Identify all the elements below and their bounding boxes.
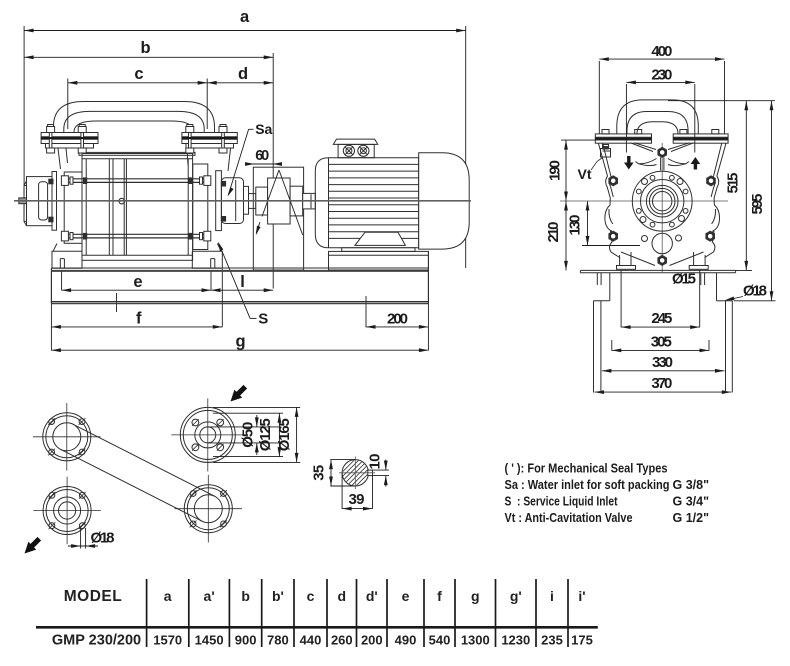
svg-text:d: d xyxy=(238,65,248,83)
bottom vee to drain xyxy=(621,252,704,266)
motor end bell xyxy=(419,153,470,249)
dimension 60 xyxy=(247,163,281,165)
svg-text:780: 780 xyxy=(267,633,289,648)
svg-text:595: 595 xyxy=(749,194,766,215)
svg-text:S : Service Liquid Inlet: S : Service Liquid Inlet xyxy=(505,495,619,509)
dimension 35 xyxy=(330,460,332,486)
svg-text:260: 260 xyxy=(331,633,353,648)
motor base block xyxy=(329,251,429,270)
svg-text:400: 400 xyxy=(651,43,672,60)
svg-text:GMP 230/200: GMP 230/200 xyxy=(52,633,141,649)
svg-text:Ø18: Ø18 xyxy=(91,530,115,547)
svg-text:a: a xyxy=(240,8,250,26)
motor shaft end xyxy=(303,193,316,209)
svg-text:G 3/8": G 3/8" xyxy=(673,478,710,492)
svg-text:MODEL: MODEL xyxy=(64,588,122,605)
svg-text:200: 200 xyxy=(387,310,408,327)
shaft to coupling xyxy=(249,194,256,209)
tie rod lower xyxy=(64,234,210,238)
dimension 39 xyxy=(342,508,372,510)
svg-text:l: l xyxy=(240,273,245,291)
right bearing flange plate xyxy=(216,171,222,231)
lifting handle side view xyxy=(53,102,214,133)
dimension f and 200 xyxy=(51,326,222,328)
left port flange plates xyxy=(41,133,98,144)
flange bolts front xyxy=(602,130,609,134)
shaft key xyxy=(368,470,373,476)
guard brace xyxy=(279,170,303,235)
flange top-left xyxy=(43,413,91,461)
shaft hatching xyxy=(337,427,373,518)
dia50 dimension xyxy=(208,426,281,428)
drain port xyxy=(652,233,672,253)
casing center plug xyxy=(119,198,125,204)
dimension 370 xyxy=(595,391,732,393)
dimension 130 xyxy=(587,201,589,246)
svg-text:d': d' xyxy=(366,588,378,604)
svg-text:Vt: Vt xyxy=(578,166,592,182)
svg-text:235: 235 xyxy=(541,633,563,648)
svg-text:370: 370 xyxy=(651,375,672,392)
shaft axis centerline xyxy=(14,200,471,202)
dimension b xyxy=(24,56,273,58)
face bolt holes xyxy=(670,175,675,180)
svg-text:S: S xyxy=(258,311,268,328)
right port flange plates xyxy=(182,133,237,144)
front flange plate right xyxy=(673,134,728,143)
gasket bands front flanges xyxy=(595,138,651,140)
svg-text:515: 515 xyxy=(725,173,742,194)
svg-text:b': b' xyxy=(272,588,284,604)
body profile right xyxy=(705,143,726,257)
shaft cross-section circle xyxy=(342,460,368,486)
flow arrow down xyxy=(624,156,634,170)
svg-text:a: a xyxy=(164,588,172,604)
flange bottom-left detail xyxy=(43,487,91,535)
dimension 190 and 210 xyxy=(565,140,567,270)
dia125 dimension xyxy=(278,413,280,456)
left bearing housing xyxy=(27,177,53,226)
svg-text:60: 60 xyxy=(255,148,269,164)
casing small bosses xyxy=(642,179,648,185)
arrowheads side dims xyxy=(24,29,33,33)
svg-text:Ø165: Ø165 xyxy=(276,418,293,451)
dimension 230 xyxy=(626,81,694,83)
front centerlines xyxy=(560,200,728,202)
gasket bands on port flanges xyxy=(41,137,98,139)
svg-text:f: f xyxy=(437,588,442,604)
front feet xyxy=(619,255,621,266)
svg-text:b: b xyxy=(241,588,250,604)
dimension g xyxy=(51,349,428,351)
flow arrow up xyxy=(691,157,701,170)
svg-text:200: 200 xyxy=(361,633,383,648)
svg-text:g': g' xyxy=(510,588,522,604)
table column separators xyxy=(146,579,148,647)
dimension 595 xyxy=(771,101,773,301)
pump cylinder casing xyxy=(82,154,193,261)
svg-text:35: 35 xyxy=(311,465,328,481)
dimension e and l xyxy=(62,289,274,291)
bearing face circles xyxy=(632,171,692,231)
svg-text:330: 330 xyxy=(652,354,673,371)
flange top-right detail xyxy=(180,407,235,462)
svg-text:190: 190 xyxy=(547,160,564,181)
dia18 dimension pipe xyxy=(80,528,82,549)
svg-text:540: 540 xyxy=(429,633,451,648)
coupling hubs xyxy=(256,187,268,215)
svg-text:900: 900 xyxy=(235,633,257,648)
front flange plate left xyxy=(595,134,651,143)
bold arrow to flange detail xyxy=(231,385,248,402)
flange bottom-right xyxy=(184,485,232,533)
dimension 245 xyxy=(621,326,700,328)
leader S xyxy=(219,244,250,319)
body profile left xyxy=(598,143,619,257)
leader dia18 xyxy=(726,297,743,301)
tie rod wall nuts xyxy=(83,177,193,239)
front base pedestal xyxy=(580,269,735,271)
dimension 515 xyxy=(745,101,747,271)
svg-text:a': a' xyxy=(204,588,215,604)
svg-text:g: g xyxy=(471,588,480,604)
svg-text:130: 130 xyxy=(567,215,584,236)
terminal box bolts xyxy=(343,145,354,156)
casing top plate xyxy=(79,152,195,155)
svg-text:f: f xyxy=(136,309,142,327)
baseplate hole centerline ticks xyxy=(116,293,118,312)
svg-text:440: 440 xyxy=(300,633,322,648)
svg-text:490: 490 xyxy=(395,633,417,648)
dimension c and d xyxy=(68,82,273,84)
svg-text:G 1/2": G 1/2" xyxy=(673,511,710,525)
motor cooling fins xyxy=(329,163,419,165)
motor foot pad xyxy=(355,232,406,245)
svg-text:e: e xyxy=(133,273,142,291)
left bearing flange plate xyxy=(52,172,57,231)
bold arrow bottom left xyxy=(25,537,42,554)
svg-text:i': i' xyxy=(578,588,585,604)
svg-text:( ' ): For Mechanical Seal Typ: ( ' ): For Mechanical Seal Types xyxy=(505,462,668,476)
right seal housing xyxy=(244,186,249,214)
right bearing housing xyxy=(221,178,243,224)
svg-text:Ø50: Ø50 xyxy=(240,422,257,448)
svg-text:Ø125: Ø125 xyxy=(257,418,274,451)
svg-text:Sa: Sa xyxy=(255,121,272,137)
anti-cavitation valve Vt xyxy=(601,149,611,158)
port flange bolts xyxy=(47,125,227,154)
right end cover xyxy=(193,164,208,250)
svg-text:230: 230 xyxy=(651,67,672,84)
svg-text:b: b xyxy=(140,39,150,57)
baseplate side view xyxy=(51,267,428,269)
dimension 10 xyxy=(385,460,387,471)
hex bolts on casing xyxy=(608,147,715,266)
svg-text:39: 39 xyxy=(349,491,365,508)
pipe between flanges xyxy=(61,449,203,521)
left shaft stub xyxy=(19,198,27,204)
svg-text:245: 245 xyxy=(651,310,672,327)
motor fin body xyxy=(315,158,418,248)
pump foot right xyxy=(192,244,222,269)
front handle xyxy=(617,100,699,134)
svg-text:1450: 1450 xyxy=(195,633,224,648)
pump foot left xyxy=(52,244,82,269)
shaft crosshairs xyxy=(339,472,375,474)
bearing housing bolts xyxy=(49,179,53,184)
svg-text:G 3/4": G 3/4" xyxy=(673,495,710,509)
svg-text:e: e xyxy=(402,588,410,604)
dimension a xyxy=(24,30,466,32)
tie rod upper xyxy=(61,176,210,241)
base bolt holes dia15 xyxy=(596,273,598,285)
svg-text:d: d xyxy=(338,588,347,604)
svg-text:210: 210 xyxy=(545,222,562,243)
svg-text:1230: 1230 xyxy=(501,633,530,648)
dimension 330 xyxy=(602,370,725,372)
bolt hole slot ticks xyxy=(48,418,55,425)
svg-text:Ø18: Ø18 xyxy=(743,283,767,300)
svg-text:1300: 1300 xyxy=(461,633,490,648)
dia165 dimension xyxy=(296,407,298,462)
svg-text:305: 305 xyxy=(651,333,672,350)
svg-text:1570: 1570 xyxy=(153,633,182,648)
table header rule xyxy=(36,626,598,629)
dimension 305 xyxy=(612,349,709,351)
svg-text:g: g xyxy=(236,333,246,351)
svg-text:c: c xyxy=(134,65,143,83)
terminal box xyxy=(333,139,378,144)
left end cover xyxy=(64,172,82,243)
leader Sa xyxy=(249,128,254,130)
svg-text:175: 175 xyxy=(571,633,593,648)
svg-text:i: i xyxy=(550,588,554,604)
svg-text:Vt : Anti-Cavitation Valve: Vt : Anti-Cavitation Valve xyxy=(505,511,633,525)
coupling guard xyxy=(253,167,303,270)
svg-text:c: c xyxy=(307,588,315,604)
dimension 400 xyxy=(599,58,724,60)
neck below flanges xyxy=(631,143,694,152)
svg-text:Sa : Water inlet for soft pack: Sa : Water inlet for soft packing xyxy=(505,478,670,492)
svg-text:10: 10 xyxy=(367,454,384,470)
